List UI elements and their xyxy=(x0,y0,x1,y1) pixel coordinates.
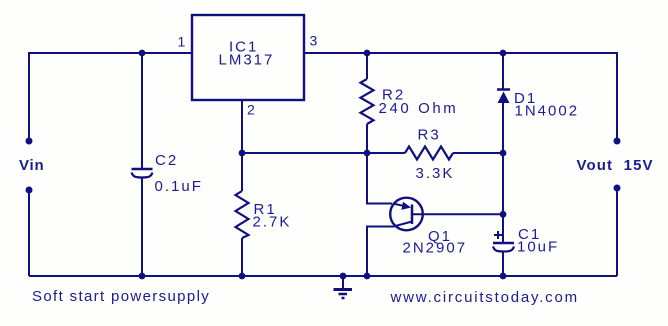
svg-text:1: 1 xyxy=(178,34,186,50)
svg-text:R3: R3 xyxy=(418,127,441,144)
wire right rail upper xyxy=(304,53,617,141)
wire right rail lower xyxy=(616,188,618,276)
svg-text:Soft start powersupply: Soft start powersupply xyxy=(32,288,210,305)
node D1 top xyxy=(500,50,507,57)
svg-text:240 Ohm: 240 Ohm xyxy=(379,100,459,117)
wire ADJ horizontal right xyxy=(453,152,503,154)
svg-text:0.1uF: 0.1uF xyxy=(155,178,203,195)
wire Q1 base xyxy=(412,213,503,215)
IC1 LM317 box xyxy=(192,15,304,100)
svg-text:3.3K: 3.3K xyxy=(416,165,455,182)
wire Q1 emitter xyxy=(367,153,392,204)
node C2 bottom xyxy=(139,273,146,280)
node Vout minus terminal xyxy=(614,185,621,192)
wire pin2 vertical xyxy=(241,100,243,153)
diode D1 xyxy=(497,90,510,104)
svg-text:Vout 15V: Vout 15V xyxy=(577,157,654,174)
svg-text:2N2907: 2N2907 xyxy=(403,240,468,257)
wire top rail left xyxy=(29,53,192,141)
node R3 right xyxy=(500,150,507,157)
node ground xyxy=(340,273,347,280)
wire C2 branch lower xyxy=(141,178,143,276)
resistor R3 xyxy=(405,147,453,160)
svg-text:LM317: LM317 xyxy=(219,52,275,69)
wire R2 top stub xyxy=(366,53,368,79)
node R2 bottom xyxy=(364,150,371,157)
node Vin plus terminal xyxy=(26,138,33,145)
wire R2 bottom stub xyxy=(366,124,368,153)
node R1 bottom xyxy=(239,273,246,280)
node C2 top xyxy=(139,50,146,57)
wire D1 top stub xyxy=(502,53,504,89)
svg-text:10uF: 10uF xyxy=(517,239,559,256)
wire left rail lower xyxy=(28,190,30,276)
capacitor C1 xyxy=(493,231,514,252)
node ADJ xyxy=(239,150,246,157)
svg-text:2.7K: 2.7K xyxy=(253,214,292,231)
svg-text:3: 3 xyxy=(310,33,318,49)
capacitor C2 xyxy=(132,169,153,178)
wire C2 branch upper xyxy=(141,53,143,169)
svg-text:Vin: Vin xyxy=(19,157,44,174)
wire bottom rail xyxy=(29,275,617,277)
resistor R2 xyxy=(361,79,374,124)
svg-text:www.circuitstoday.com: www.circuitstoday.com xyxy=(390,289,579,306)
svg-text:1N4002: 1N4002 xyxy=(515,103,580,120)
wire ADJ horizontal left xyxy=(242,152,405,154)
node R2 top xyxy=(364,50,371,57)
node Vin minus terminal xyxy=(26,187,33,194)
node Vout plus terminal xyxy=(614,138,621,145)
node C1 bottom xyxy=(500,273,507,280)
node Q1 collector bottom xyxy=(364,273,371,280)
wire Q1 collector xyxy=(367,227,394,277)
svg-text:C2: C2 xyxy=(155,152,178,169)
ground xyxy=(334,276,353,298)
node base C1 xyxy=(500,211,507,218)
resistor R1 xyxy=(236,191,249,238)
wire C1 bottom stub xyxy=(502,251,504,276)
svg-text:2: 2 xyxy=(247,102,255,118)
wire R1 top stub xyxy=(241,153,243,191)
wire D1 to C1 xyxy=(502,103,504,243)
transistor Q1 xyxy=(390,198,423,231)
wire R1 bottom stub xyxy=(241,238,243,276)
